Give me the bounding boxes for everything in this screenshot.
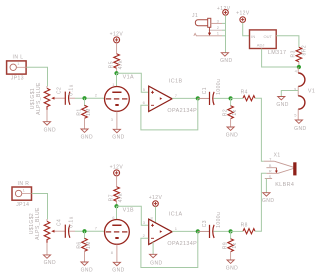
ground below R2 xyxy=(226,118,238,138)
resistor R2 1k xyxy=(222,98,238,118)
+12V supply above R7 xyxy=(110,164,124,187)
wire plate node to op-amp input 3 xyxy=(117,206,149,225)
svg-text:GND: GND xyxy=(112,135,124,141)
+12V supply above R5 xyxy=(110,31,124,54)
capacitor C3 1000u xyxy=(198,212,231,238)
svg-text:LM317: LM317 xyxy=(268,50,286,56)
+12V supply at LM317 input xyxy=(236,11,250,23)
ground below tube V1A xyxy=(112,111,124,140)
svg-text:C4: C4 xyxy=(57,219,63,226)
svg-text:1000u: 1000u xyxy=(216,79,222,95)
svg-text:GND: GND xyxy=(226,266,238,272)
+12V supply at J1 xyxy=(217,6,231,15)
svg-text:GND: GND xyxy=(150,260,162,266)
ground below R1 xyxy=(81,118,93,140)
ground below pot U$1G$2 xyxy=(43,243,56,266)
junction node V1A plate xyxy=(114,71,134,81)
wire op-amp IC1A output xyxy=(172,230,198,232)
svg-text:R5: R5 xyxy=(109,61,115,68)
svg-text:R9: R9 xyxy=(222,242,228,249)
svg-text:0.1u: 0.1u xyxy=(69,216,75,228)
svg-text:+12V: +12V xyxy=(149,195,163,201)
svg-text:47k: 47k xyxy=(118,60,124,69)
capacitor C2 0.1u xyxy=(57,84,75,105)
connector JP14 xyxy=(12,181,32,208)
wire heater centre tap to ground xyxy=(281,91,298,97)
wire plate node down to tube V1B xyxy=(116,206,118,219)
ground below IC1A xyxy=(150,242,163,266)
capacitor C1 1000u xyxy=(198,79,231,105)
jack X1 KLBR4 xyxy=(264,152,297,188)
svg-text:C2: C2 xyxy=(57,87,63,94)
svg-text:GND: GND xyxy=(112,268,124,274)
svg-text:1M: 1M xyxy=(86,241,92,249)
junction node at C4/R6/V1B grid xyxy=(82,229,86,233)
svg-text:GND: GND xyxy=(294,126,306,132)
potentiometer U$1G$2 ALPS_BLUE xyxy=(29,207,60,243)
ground at heater centre tap xyxy=(276,97,288,108)
wire LM317 ADJ to R3 bottom xyxy=(262,49,299,68)
svg-text:OUT: OUT xyxy=(264,34,273,39)
ground below heater xyxy=(294,120,306,132)
svg-text:GND: GND xyxy=(81,267,93,273)
svg-text:OPA2134P: OPA2134P xyxy=(167,108,197,114)
wire plate node to op-amp input 5 xyxy=(117,73,149,92)
svg-text:GND: GND xyxy=(226,133,238,139)
svg-text:1M: 1M xyxy=(86,108,92,116)
svg-text:IN L: IN L xyxy=(13,55,24,61)
ground below tube V1B xyxy=(112,244,124,273)
svg-text:R2: R2 xyxy=(222,109,228,116)
ground below R6 xyxy=(81,251,93,273)
svg-text:KLBR4: KLBR4 xyxy=(275,182,294,188)
svg-text:JP13: JP13 xyxy=(11,76,24,82)
svg-text:R7: R7 xyxy=(109,194,115,201)
resistor R4 xyxy=(231,90,255,101)
svg-text:1k: 1k xyxy=(232,109,238,115)
junction node R3/ADJ/heater xyxy=(297,65,301,69)
junction node V1B plate xyxy=(114,204,134,214)
regulator LM317 xyxy=(250,30,287,56)
svg-text:ALPS_BLUE: ALPS_BLUE xyxy=(36,82,42,115)
svg-text:C1: C1 xyxy=(202,87,208,94)
ground below pot U$1G$1 xyxy=(43,110,56,133)
svg-text:V1B: V1B xyxy=(123,208,134,214)
wire C4 to grid node xyxy=(75,230,105,232)
junction node C1/R2/R4 xyxy=(229,96,233,100)
svg-text:OPA2134P: OPA2134P xyxy=(167,241,197,247)
svg-text:C3: C3 xyxy=(202,220,208,227)
wire C2 to grid node xyxy=(75,97,105,99)
ground below R9 xyxy=(226,251,238,271)
wire +12V to LM317 IN xyxy=(243,22,250,35)
junction node IC1A output xyxy=(196,229,200,233)
svg-text:+12V: +12V xyxy=(236,11,250,17)
svg-text:ALPS_BLUE: ALPS_BLUE xyxy=(35,207,41,240)
wire JP13 to pot xyxy=(26,67,47,86)
svg-text:GND: GND xyxy=(44,260,56,266)
wire feedback loop IC1B xyxy=(141,98,198,129)
connector JP13 xyxy=(7,55,27,82)
+12V supply above IC1A xyxy=(149,195,163,224)
svg-text:GND: GND xyxy=(220,58,232,64)
op-amp IC1B OPA2134P xyxy=(143,78,198,114)
resistor R8 xyxy=(231,223,255,234)
wire op-amp IC1B output xyxy=(172,97,198,99)
wire LM317 OUT to R3 xyxy=(276,36,299,48)
svg-text:R8: R8 xyxy=(241,223,248,229)
wire feedback loop IC1A xyxy=(141,231,198,267)
tube triode V1A xyxy=(95,82,130,122)
svg-text:47k: 47k xyxy=(118,193,124,202)
svg-text:R3: R3 xyxy=(291,50,297,57)
potentiometer U$1G$1 ALPS_BLUE xyxy=(30,82,60,115)
svg-text:R4: R4 xyxy=(241,90,248,96)
resistor R1 1M xyxy=(77,98,92,118)
svg-text:GND: GND xyxy=(81,134,93,140)
svg-text:J1: J1 xyxy=(192,13,198,19)
tube heater V1 coil lower xyxy=(294,96,305,120)
svg-text:ADJ: ADJ xyxy=(257,42,265,47)
ground below J1 xyxy=(220,53,232,64)
svg-text:GND: GND xyxy=(276,102,288,108)
svg-text:1000u: 1000u xyxy=(216,212,222,228)
op-amp IC1A OPA2134P xyxy=(143,212,198,247)
wire R8 to X1 ring xyxy=(255,173,266,231)
svg-text:IN R: IN R xyxy=(18,181,30,187)
resistor R7 47k xyxy=(109,187,125,206)
wire R4 to X1 tip xyxy=(255,98,264,161)
resistor R3 8R2 xyxy=(291,45,308,67)
capacitor C4 0.1u xyxy=(57,216,75,238)
svg-text:B: B xyxy=(269,163,272,168)
svg-text:V1A: V1A xyxy=(123,75,134,81)
svg-text:8R2: 8R2 xyxy=(302,45,308,56)
tube heater V1 coil upper xyxy=(294,67,315,96)
wire X1 sleeve to ground xyxy=(265,179,267,193)
junction node at C2/R1/V1A grid xyxy=(82,96,86,100)
svg-text:GND: GND xyxy=(44,127,56,133)
svg-text:R1: R1 xyxy=(77,108,83,115)
svg-text:IC1A: IC1A xyxy=(169,212,183,218)
svg-text:R6: R6 xyxy=(77,241,83,248)
junction node IC1B output xyxy=(196,96,200,100)
resistor R6 1M xyxy=(77,231,92,251)
svg-text:+12V: +12V xyxy=(217,6,231,12)
svg-text:IN: IN xyxy=(251,34,255,39)
ground at X1 sleeve xyxy=(262,193,274,204)
svg-text:1k: 1k xyxy=(232,242,238,248)
resistor R5 47k xyxy=(109,54,125,73)
svg-text:GND: GND xyxy=(262,198,274,204)
svg-text:IC1B: IC1B xyxy=(169,78,183,84)
svg-text:JP14: JP14 xyxy=(16,202,29,208)
svg-text:X1: X1 xyxy=(274,152,281,158)
svg-text:V1: V1 xyxy=(308,88,315,94)
svg-text:0.1u: 0.1u xyxy=(69,84,75,96)
junction node C3/R9/R8 xyxy=(229,229,233,233)
wire plate node down to tube xyxy=(116,73,118,86)
tube triode V1B xyxy=(95,215,130,255)
resistor R9 1k xyxy=(222,231,238,251)
wire J1 pins to +12V and GND xyxy=(222,15,226,52)
power jack J1 xyxy=(192,13,222,36)
wire JP14 to pot xyxy=(32,194,48,220)
